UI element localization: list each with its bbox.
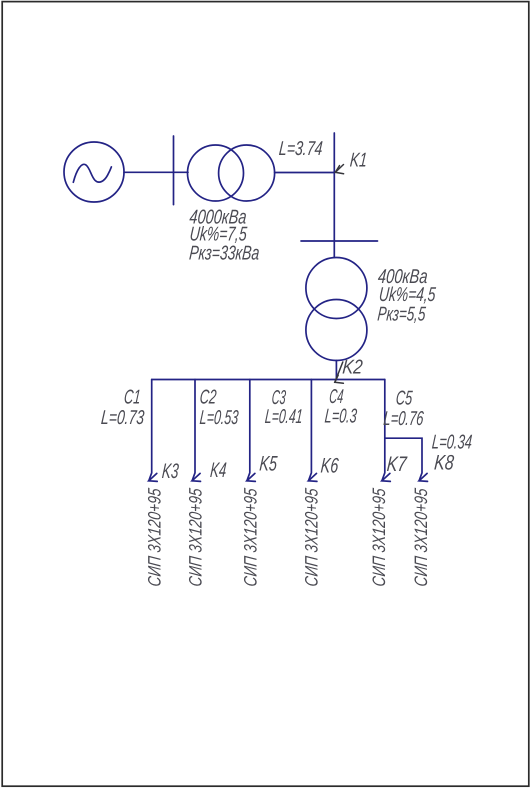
feeder C4 wire [309,380,312,481]
svg-text:L=0.3: L=0.3 [324,405,358,427]
svg-text:L=0.53: L=0.53 [199,407,239,429]
svg-text:K7: K7 [386,453,408,476]
transformer T2 winding 2 [306,300,367,361]
svg-text:K5: K5 [259,453,279,476]
svg-text:СИП 3Х120+95: СИП 3Х120+95 [241,487,261,588]
svg-text:СИП 3Х120+95: СИП 3Х120+95 [411,487,431,588]
svg-text:СИП 3Х120+95: СИП 3Х120+95 [301,487,321,588]
fault pointer K2 [335,362,343,382]
svg-text:С2: С2 [199,386,217,408]
svg-text:Ркз=33кВа: Ркз=33кВа [188,243,260,265]
busbar B2 [301,240,378,242]
svg-text:K2: K2 [342,357,364,379]
transformer T1 winding 1 [188,145,244,201]
svg-text:С5: С5 [395,387,414,409]
svg-text:K1: K1 [349,149,368,171]
wire G1 to busbar tick [124,171,188,173]
transformer T2 winding 1 [306,258,367,319]
branch wire C5 to K8 [385,438,422,481]
svg-text:K6: K6 [320,455,340,478]
arrowhead K3 [149,473,157,481]
svg-text:С1: С1 [123,386,141,408]
arrowhead K5 [247,473,255,481]
sine wave inside G1 [73,164,111,182]
feeder C2 wire [192,380,195,481]
arrowhead K6 [309,473,317,481]
svg-text:L=3.74: L=3.74 [278,138,323,160]
svg-text:K8: K8 [433,452,455,475]
svg-text:СИП 3Х120+95: СИП 3Х120+95 [145,487,165,588]
wire T1 to node K1 [275,172,335,174]
svg-text:K4: K4 [209,459,227,482]
svg-text:СИП 3Х120+95: СИП 3Х120+95 [185,487,205,588]
svg-text:СИП 3Х120+95: СИП 3Х120+95 [369,487,389,588]
generator G1 (AC source circle) [64,142,124,202]
vertical wire through K1 down to T2 [333,133,335,258]
wire T2 to bus [335,361,337,380]
svg-text:L=0.76: L=0.76 [383,408,425,430]
arrowhead K8 [419,473,427,481]
svg-text:Uk%=4,5: Uk%=4,5 [378,284,437,306]
svg-text:Ркз=5,5: Ркз=5,5 [377,304,427,326]
transformer T1 winding 2 [219,145,275,201]
svg-text:L=0.41: L=0.41 [264,406,303,428]
fault pointer K1 [335,165,343,173]
busbar tick B1 [173,136,175,205]
svg-text:L=0.34: L=0.34 [431,432,473,454]
arrowhead K4 [192,473,200,481]
feeder C3 wire [247,380,250,481]
svg-text:K3: K3 [161,460,180,483]
distribution bus wire [152,379,385,381]
feeder C1 wire [149,380,152,481]
arrowhead K7 [382,473,390,481]
svg-text:L=0.73: L=0.73 [100,407,145,429]
feeder C5 wire [382,380,385,481]
